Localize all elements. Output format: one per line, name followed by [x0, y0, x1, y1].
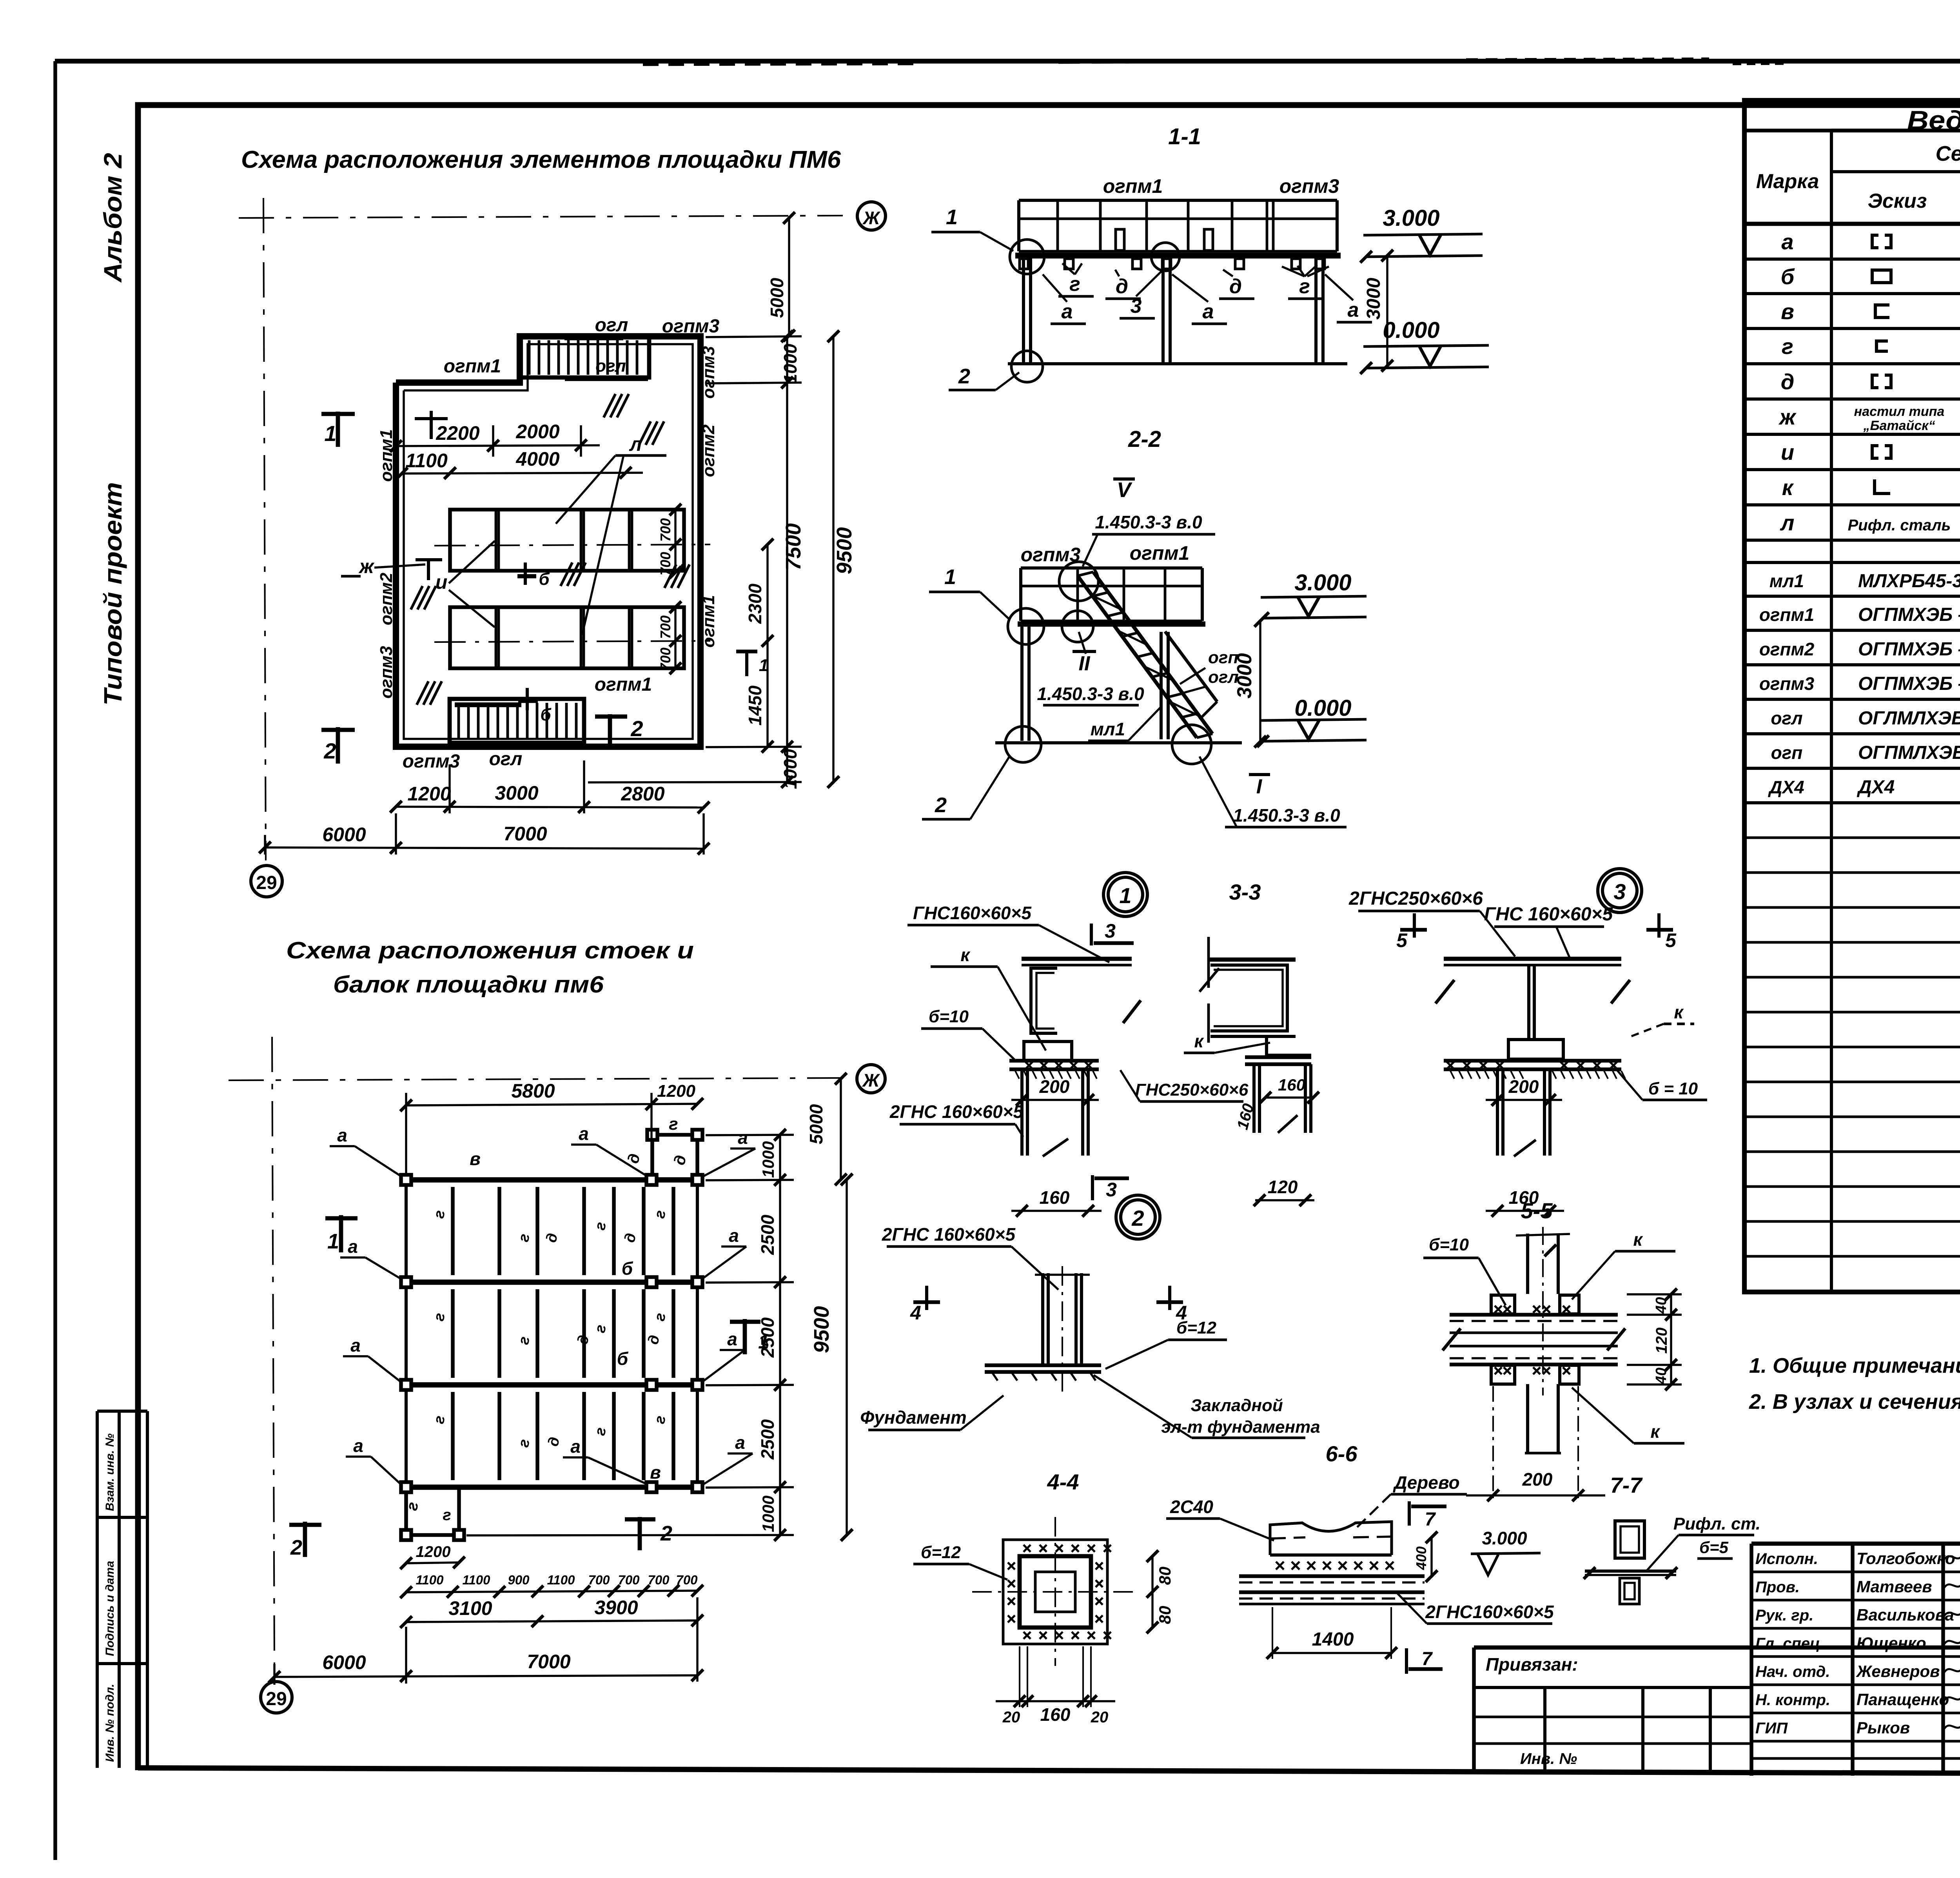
section 2-2 stair treads [1078, 572, 1093, 576]
plan2 dims 6000 7000 [274, 1675, 697, 1677]
svg-text:огпм3: огпм3 [403, 751, 460, 772]
svg-text:3100: 3100 [448, 1597, 492, 1619]
plan1 T-mark top interior [430, 411, 433, 439]
svg-text:ГНС 160×60×5: ГНС 160×60×5 [1484, 904, 1613, 925]
node mid base plate [1245, 1055, 1311, 1059]
svg-text:4000: 4000 [515, 448, 559, 470]
svg-text:2: 2 [660, 1522, 672, 1545]
svg-text:б = 10: б = 10 [1648, 1079, 1698, 1098]
svg-text:Панащенко: Панащенко [1857, 1690, 1949, 1709]
node mid dim 120 [1255, 1199, 1314, 1201]
plan2 dims 3100 3900 [406, 1620, 697, 1622]
plan1 axis Ж circle [857, 202, 886, 230]
svg-text:0.000: 0.000 [1294, 695, 1351, 721]
svg-text:Инв. №: Инв. № [1520, 1750, 1577, 1767]
svg-text:Схема расположения стоек и: Схема расположения стоек и [286, 937, 694, 963]
node1 section mark 3 top [1090, 924, 1093, 945]
svg-text:Василькова: Василькова [1857, 1606, 1954, 1624]
svg-text:огпм2: огпм2 [699, 424, 718, 477]
svg-text:2: 2 [630, 716, 643, 741]
node circle 1 [1108, 877, 1143, 912]
plan1 section mark 2 left [336, 727, 340, 764]
svg-text:Рифл. сталь: Рифл. сталь [1848, 517, 1951, 534]
plan1 axis Ж horizontal line [239, 216, 843, 218]
svg-text:1000: 1000 [759, 1495, 777, 1532]
plan2 columns verticals [405, 1180, 408, 1487]
elements table outer border [1744, 100, 1960, 1292]
privyazan box [1472, 1648, 1476, 1770]
signature table verticals [1749, 1544, 1753, 1776]
svg-text:а: а [1062, 300, 1073, 323]
svg-text:20: 20 [1091, 1709, 1109, 1726]
plan1 axis 29 circle [251, 866, 282, 897]
svg-text:4: 4 [1176, 1302, 1187, 1324]
svg-text:а: а [738, 1127, 748, 1148]
detail 4-4 columns [1041, 1273, 1044, 1365]
section 2-2 elevation 0.000 [1263, 740, 1367, 741]
svg-text:огпм3: огпм3 [1279, 175, 1339, 197]
sheet outer border left [53, 61, 57, 1860]
svg-text:ОГПМХЭБ – 12.12 серии 1.450.: ОГПМХЭБ – 12.12 серии 1.450.3-3, вып.2 [1858, 673, 1960, 694]
svg-text:700: 700 [657, 648, 673, 671]
section 1-1 dim 3000 [1386, 256, 1388, 366]
svg-text:огп: огп [1771, 742, 1803, 763]
svg-text:ж: ж [1778, 405, 1797, 429]
svg-text:Подпись и дата: Подпись и дата [103, 1561, 116, 1656]
svg-text:б: б [617, 1348, 629, 1369]
plan1 bottom stair ОГЛ [450, 699, 584, 743]
svg-text:Марка: Марка [1756, 170, 1819, 193]
svg-text:1100: 1100 [547, 1573, 575, 1587]
node3 dim 160 [1486, 1210, 1564, 1212]
elements table header verticals [1830, 131, 1833, 1292]
svg-text:к: к [1650, 1421, 1661, 1442]
svg-text:V: V [1117, 478, 1132, 502]
svg-text:1: 1 [944, 565, 956, 589]
svg-text:700: 700 [657, 552, 673, 575]
svg-text:80: 80 [1156, 1567, 1174, 1585]
svg-text:г: г [1299, 275, 1310, 298]
signature table rows [1751, 1571, 1960, 1573]
svg-text:г: г [443, 1506, 451, 1524]
svg-text:2С40: 2С40 [1170, 1497, 1213, 1517]
svg-text:6000: 6000 [322, 824, 366, 846]
svg-text:3: 3 [1131, 295, 1142, 318]
svg-text:б: б [539, 570, 550, 589]
plan2 axis 29 circle [261, 1682, 292, 1713]
svg-text:б: б [540, 705, 552, 724]
svg-text:5000: 5000 [767, 278, 787, 318]
svg-text:1000: 1000 [780, 749, 800, 789]
svg-text:1200: 1200 [416, 1543, 451, 1560]
table lower section row lines [1744, 595, 1960, 598]
section 2-2 circles [1059, 562, 1098, 601]
plan1 bottom dim 1200 3000 2800 [396, 807, 704, 807]
svg-text:к: к [1194, 1031, 1204, 1051]
svg-text:4-4: 4-4 [1047, 1470, 1079, 1494]
node3 base plate hatch ticks [1450, 1071, 1454, 1079]
svg-text:ОГПМХЭБ – 12.14 серии 1.450.: ОГПМХЭБ – 12.14 серии 1.450.3-3, вып.2 [1858, 639, 1960, 660]
plan1 right dim chain 1000 7500 1000 [786, 336, 788, 782]
svg-text:Ж: Ж [862, 1070, 880, 1091]
svg-text:1.450.3-3 в.0: 1.450.3-3 в.0 [1233, 805, 1340, 826]
left margin stamp boxes [96, 1411, 99, 1768]
svg-text:Инв. № подл.: Инв. № подл. [103, 1684, 116, 1762]
plan1 section mark 2 right [608, 714, 612, 747]
detail 6-6 section marks 7 [1408, 1501, 1411, 1526]
section 2-2 ogl stringer [1165, 631, 1217, 702]
svg-text:Н. контр.: Н. контр. [1755, 1691, 1830, 1709]
svg-text:д: д [1229, 275, 1242, 298]
svg-text:2-2: 2-2 [1128, 426, 1161, 452]
svg-text:700: 700 [648, 1573, 670, 1587]
node circle 3 [1602, 873, 1637, 908]
svg-text:900: 900 [508, 1573, 530, 1587]
svg-text:Взам. инв. №: Взам. инв. № [103, 1433, 116, 1511]
section 1-1 columns [1022, 258, 1025, 363]
node3 beam top flange [1444, 957, 1621, 961]
svg-text:огпм3: огпм3 [662, 316, 720, 337]
svg-text:ОГЛМЛХЭБ 45-12.30 серии 1.45: ОГЛМЛХЭБ 45-12.30 серии 1.450.3-3,вып.2 [1858, 708, 1960, 729]
svg-text:Закладной: Закладной [1191, 1396, 1283, 1415]
svg-text:3.000: 3.000 [1383, 205, 1439, 231]
plan2 joists [451, 1187, 455, 1275]
plan1 platform outline [396, 336, 701, 747]
detail 5-5 column top [1526, 1234, 1529, 1294]
plan1 top stair ОГЛ [520, 336, 649, 377]
svg-text:4: 4 [910, 1302, 921, 1324]
svg-text:Схема расположения элементов п: Схема расположения элементов площадки ПМ… [241, 146, 841, 173]
svg-text:1: 1 [946, 205, 958, 229]
svg-text:2ГНС 160×60×5: 2ГНС 160×60×5 [889, 1101, 1024, 1122]
plan1 lower opening [450, 607, 684, 668]
svg-text:г: г [1069, 273, 1080, 296]
plan1 hatch marks [604, 394, 615, 417]
svg-text:ДХ4: ДХ4 [1857, 777, 1895, 798]
node mid break slash [1278, 1115, 1298, 1133]
svg-text:120: 120 [1268, 1177, 1298, 1197]
plan1 dim 1100 4000 [402, 473, 643, 474]
plan2 axis Ж line [229, 1078, 843, 1080]
svg-text:6-6: 6-6 [1326, 1441, 1358, 1466]
svg-text:1. Общие примечания см. на л: 1. Общие примечания см. на листе 14 [1749, 1354, 1960, 1377]
svg-text:в: в [1781, 299, 1794, 324]
svg-text:40: 40 [1653, 1368, 1670, 1384]
frame bottom line [138, 1768, 1960, 1775]
svg-text:3-3: 3-3 [1229, 880, 1261, 904]
svg-text:огпм1: огпм1 [699, 595, 718, 648]
section 1-1 elevation 0.000 [1366, 367, 1489, 368]
svg-text:а: а [727, 1329, 737, 1349]
svg-text:огпм3: огпм3 [699, 346, 718, 399]
svg-text:ГНС250×60×6: ГНС250×60×6 [1135, 1080, 1249, 1100]
svg-text:9500: 9500 [833, 527, 856, 574]
section 2-2 dim 3000 [1259, 621, 1261, 742]
plan2 beams б horizontal [406, 1177, 697, 1183]
svg-text:2500: 2500 [757, 1317, 778, 1358]
svg-text:Жевнеров: Жевнеров [1856, 1662, 1940, 1680]
svg-text:29: 29 [266, 1689, 287, 1709]
section 2-2 deck beam [1018, 621, 1205, 627]
svg-text:ГИП: ГИП [1755, 1720, 1788, 1737]
svg-text:к: к [1633, 1229, 1643, 1250]
svg-text:огл: огл [489, 749, 523, 769]
svg-text:0.000: 0.000 [1383, 318, 1439, 343]
svg-text:120: 120 [1653, 1328, 1670, 1354]
node1 section mark 3 bottom [1091, 1175, 1094, 1200]
svg-text:2500: 2500 [757, 1419, 778, 1460]
detail 5-5 beam [1450, 1313, 1618, 1317]
detail 5-5 beam cut slashes [1443, 1328, 1461, 1350]
svg-text:5: 5 [1396, 929, 1408, 951]
svg-text:а: а [1781, 229, 1793, 254]
svg-text:а: а [348, 1236, 358, 1257]
svg-text:II: II [1079, 652, 1091, 675]
svg-text:1: 1 [759, 656, 768, 675]
svg-text:г: г [669, 1114, 678, 1134]
svg-text:б=5: б=5 [1699, 1538, 1729, 1557]
svg-text:1.450.3-3 в.0: 1.450.3-3 в.0 [1095, 512, 1202, 532]
plan2 right dim chain [779, 1135, 781, 1535]
svg-text:д: д [1116, 275, 1128, 298]
svg-text:2200: 2200 [436, 422, 479, 444]
plan2 dim 1200 below appendage [406, 1562, 459, 1563]
svg-text:1100: 1100 [405, 450, 448, 472]
svg-text:9500: 9500 [810, 1306, 833, 1353]
detail 4-4 plan dims 20 160 20 [996, 1700, 1115, 1702]
node1 seat plate [1024, 1042, 1072, 1060]
section 1-1 stiffeners д [1116, 229, 1124, 250]
plan1 opening axes dash-dot [434, 544, 710, 546]
svg-text:2ГНС 160×60×5: 2ГНС 160×60×5 [882, 1224, 1016, 1245]
section 1-1 elevation 3.000 [1366, 256, 1483, 257]
svg-text:3.000: 3.000 [1482, 1528, 1527, 1548]
svg-text:а: а [729, 1225, 739, 1246]
svg-text:а: а [735, 1432, 745, 1453]
plan2 dim 9500 [846, 1179, 848, 1535]
svg-text:б: б [1781, 264, 1795, 289]
svg-text:г: г [1782, 334, 1793, 359]
node1 beam top flange [1022, 957, 1132, 961]
node mid seat [1267, 1036, 1311, 1055]
svg-text:огпм2: огпм2 [377, 572, 396, 625]
detail 6-6 dim 1400 [1272, 1652, 1391, 1654]
svg-text:в: в [650, 1462, 661, 1482]
node3 base plate [1444, 1059, 1621, 1063]
svg-text:40: 40 [1653, 1297, 1670, 1314]
svg-text:Типовой проект: Типовой проект [99, 482, 127, 706]
detail 6-6 dim 400 [1430, 1537, 1432, 1576]
section 2-2 deck band [1021, 566, 1202, 570]
node mid dim 160 top [1265, 1096, 1313, 1098]
svg-text:80: 80 [1156, 1606, 1174, 1624]
plan1 dim 2200 2000 [396, 445, 600, 446]
svg-text:Рук. гр.: Рук. гр. [1755, 1607, 1813, 1624]
svg-text:2ГНС250×60×6: 2ГНС250×60×6 [1348, 888, 1483, 909]
svg-text:2: 2 [935, 793, 947, 817]
svg-text:3000: 3000 [1363, 278, 1384, 319]
svg-text:настил типа: настил типа [1854, 404, 1945, 419]
detail 6-6 beam [1270, 1553, 1392, 1557]
svg-text:3900: 3900 [594, 1597, 638, 1619]
svg-text:6000: 6000 [322, 1651, 366, 1673]
svg-text:3: 3 [1613, 879, 1626, 904]
node1 weld xmarks [1025, 1061, 1033, 1069]
svg-text:огл: огл [595, 356, 626, 376]
svg-text:2300: 2300 [745, 583, 765, 624]
svg-text:огл: огл [595, 315, 628, 336]
svg-text:7: 7 [1422, 1649, 1433, 1669]
plan2 top appendage [652, 1135, 697, 1180]
node circle 2 [1121, 1200, 1155, 1234]
svg-text:б: б [622, 1258, 633, 1279]
svg-text:а: а [350, 1335, 361, 1355]
title block top line [1751, 1542, 1960, 1546]
section 2-2 elevation 3.000 [1263, 617, 1367, 618]
svg-text:а: а [337, 1125, 347, 1145]
svg-text:огпм2: огпм2 [1759, 639, 1815, 659]
svg-text:огпм1: огпм1 [444, 356, 501, 377]
svg-text:2: 2 [958, 365, 970, 388]
svg-text:б=10: б=10 [1429, 1235, 1469, 1254]
svg-text:3000: 3000 [495, 782, 538, 804]
svg-text:Матвеев: Матвеев [1857, 1577, 1932, 1596]
plan1 axis 29 vertical line [263, 198, 266, 860]
svg-text:ДХ4: ДХ4 [1768, 777, 1804, 797]
svg-text:в: в [470, 1149, 481, 1169]
svg-text:Дерево: Дерево [1392, 1472, 1459, 1493]
plan2 bottom chain dims [406, 1591, 697, 1592]
node1 base plate hatch ticks [1015, 1071, 1019, 1079]
detail 4-4 center line [1062, 1266, 1063, 1395]
node3 joint plate [1508, 1040, 1563, 1059]
svg-text:20: 20 [1002, 1709, 1020, 1726]
scan artifact dashes top [643, 64, 913, 65]
plan2 top dims 5800 1200 [406, 1104, 697, 1105]
detail 4-4 plan dims 80 80 [1151, 1556, 1153, 1628]
section 1-1 connection circles [1010, 240, 1044, 274]
svg-text:1-1: 1-1 [1168, 124, 1201, 149]
svg-text:Толгобожко: Толгобожко [1857, 1549, 1955, 1568]
section 2-2 stair stringers [1078, 576, 1197, 738]
svg-text:мл1: мл1 [1091, 719, 1125, 739]
detail 5-5 top plates [1491, 1295, 1515, 1314]
svg-text:Исполн.: Исполн. [1755, 1550, 1818, 1568]
svg-text:Ж: Ж [862, 208, 881, 228]
svg-text:160: 160 [1278, 1076, 1305, 1094]
plan1 T-mark mid interior [427, 559, 430, 580]
svg-text:7: 7 [1425, 1509, 1436, 1530]
svg-text:балок площадки пм6: балок площадки пм6 [333, 971, 604, 998]
svg-text:1: 1 [327, 1230, 339, 1253]
svg-text:Рыков: Рыков [1857, 1718, 1910, 1737]
svg-text:МЛХРБ45-30.12 серии 1.450.3-3: МЛХРБ45-30.12 серии 1.450.3-3, вып.2 [1858, 571, 1960, 592]
svg-text:3000: 3000 [1233, 653, 1256, 699]
svg-text:ж: ж [358, 555, 375, 577]
svg-text:5-5: 5-5 [1521, 1198, 1553, 1223]
svg-text:5: 5 [1665, 929, 1677, 951]
svg-text:700: 700 [676, 1573, 698, 1587]
svg-text:2500: 2500 [757, 1214, 778, 1255]
svg-text:ОГПМЛХЭБ 45-12.30 серии 1.4: ОГПМЛХЭБ 45-12.30 серии 1.450.3-3, вып.2 [1858, 742, 1960, 763]
svg-text:и: и [1781, 440, 1794, 465]
detail 7-7 channel section [1615, 1521, 1644, 1558]
svg-text:160: 160 [1040, 1704, 1071, 1725]
svg-text:огпм1: огпм1 [377, 429, 396, 482]
svg-text:3: 3 [1105, 920, 1116, 942]
detail 5-5 bottom plates [1491, 1365, 1515, 1384]
svg-text:а: а [1348, 299, 1359, 321]
section 1-1 deck beam [1015, 253, 1341, 259]
section 1-1 connection clips [1020, 259, 1028, 269]
node3 section marks 5 [1400, 928, 1427, 932]
node3 joint verticals [1527, 965, 1530, 1041]
svg-text:а: а [1203, 300, 1214, 323]
svg-text:огпм1: огпм1 [1130, 542, 1190, 564]
svg-text:д: д [1781, 369, 1795, 394]
node mid channel section [1209, 958, 1296, 962]
svg-text:1200: 1200 [657, 1081, 695, 1101]
node mid column [1252, 1064, 1256, 1133]
svg-text:2000: 2000 [515, 421, 559, 443]
svg-text:7000: 7000 [503, 823, 547, 845]
detail 5-5 column bottom [1526, 1384, 1529, 1453]
plan1 platform inner line [404, 344, 693, 739]
svg-text:Эскиз: Эскиз [1868, 190, 1927, 212]
svg-text:л: л [1780, 510, 1795, 535]
svg-text:мл1: мл1 [1769, 571, 1804, 591]
node3 column [1496, 1069, 1499, 1156]
svg-text:1100: 1100 [463, 1573, 491, 1587]
section 2-2 columns [1020, 626, 1024, 741]
svg-text:ГНС160×60×5: ГНС160×60×5 [913, 903, 1032, 923]
svg-text:огпм1: огпм1 [1103, 175, 1163, 197]
node1 beam cut slash [1123, 1000, 1141, 1023]
svg-text:огпм1: огпм1 [1759, 604, 1814, 625]
detail 5-5 dims 40 120 40 [1627, 1293, 1682, 1295]
svg-text:1000: 1000 [780, 343, 800, 384]
svg-text:1.450.3-3 в.0: 1.450.3-3 в.0 [1037, 684, 1144, 704]
svg-text:700: 700 [657, 518, 673, 542]
svg-text:7-7: 7-7 [1610, 1473, 1643, 1497]
svg-text:огпм3: огпм3 [377, 646, 396, 699]
svg-text:1000: 1000 [759, 1141, 777, 1178]
node1 column [1020, 1069, 1024, 1156]
svg-text:Пров.: Пров. [1755, 1579, 1800, 1596]
node3 cut slashes [1436, 980, 1454, 1003]
svg-text:2: 2 [290, 1536, 302, 1559]
node mid cut arrows [1207, 937, 1210, 988]
svg-text:б=12: б=12 [921, 1543, 961, 1562]
svg-text:Сечение: Сечение [1936, 142, 1960, 165]
svg-text:200: 200 [1508, 1076, 1539, 1097]
svg-text:огл: огл [1771, 708, 1802, 728]
svg-text:2: 2 [323, 738, 336, 763]
detail 4-4 plan weld xmarks [1024, 1545, 1031, 1552]
svg-text:1: 1 [324, 421, 336, 446]
svg-text:3.000: 3.000 [1294, 570, 1351, 595]
svg-text:1100: 1100 [416, 1573, 444, 1587]
plan1 dims 2300 1450 [766, 544, 768, 747]
svg-text:5800: 5800 [511, 1080, 555, 1102]
svg-text:огпм1: огпм1 [595, 674, 652, 695]
svg-text:200: 200 [1522, 1469, 1553, 1490]
svg-text:2800: 2800 [621, 783, 664, 805]
svg-text:к: к [1674, 1002, 1684, 1022]
svg-text:Альбом 2: Альбом 2 [99, 153, 127, 283]
svg-text:700: 700 [657, 615, 673, 639]
plan1 inner dims 700 [674, 510, 676, 572]
